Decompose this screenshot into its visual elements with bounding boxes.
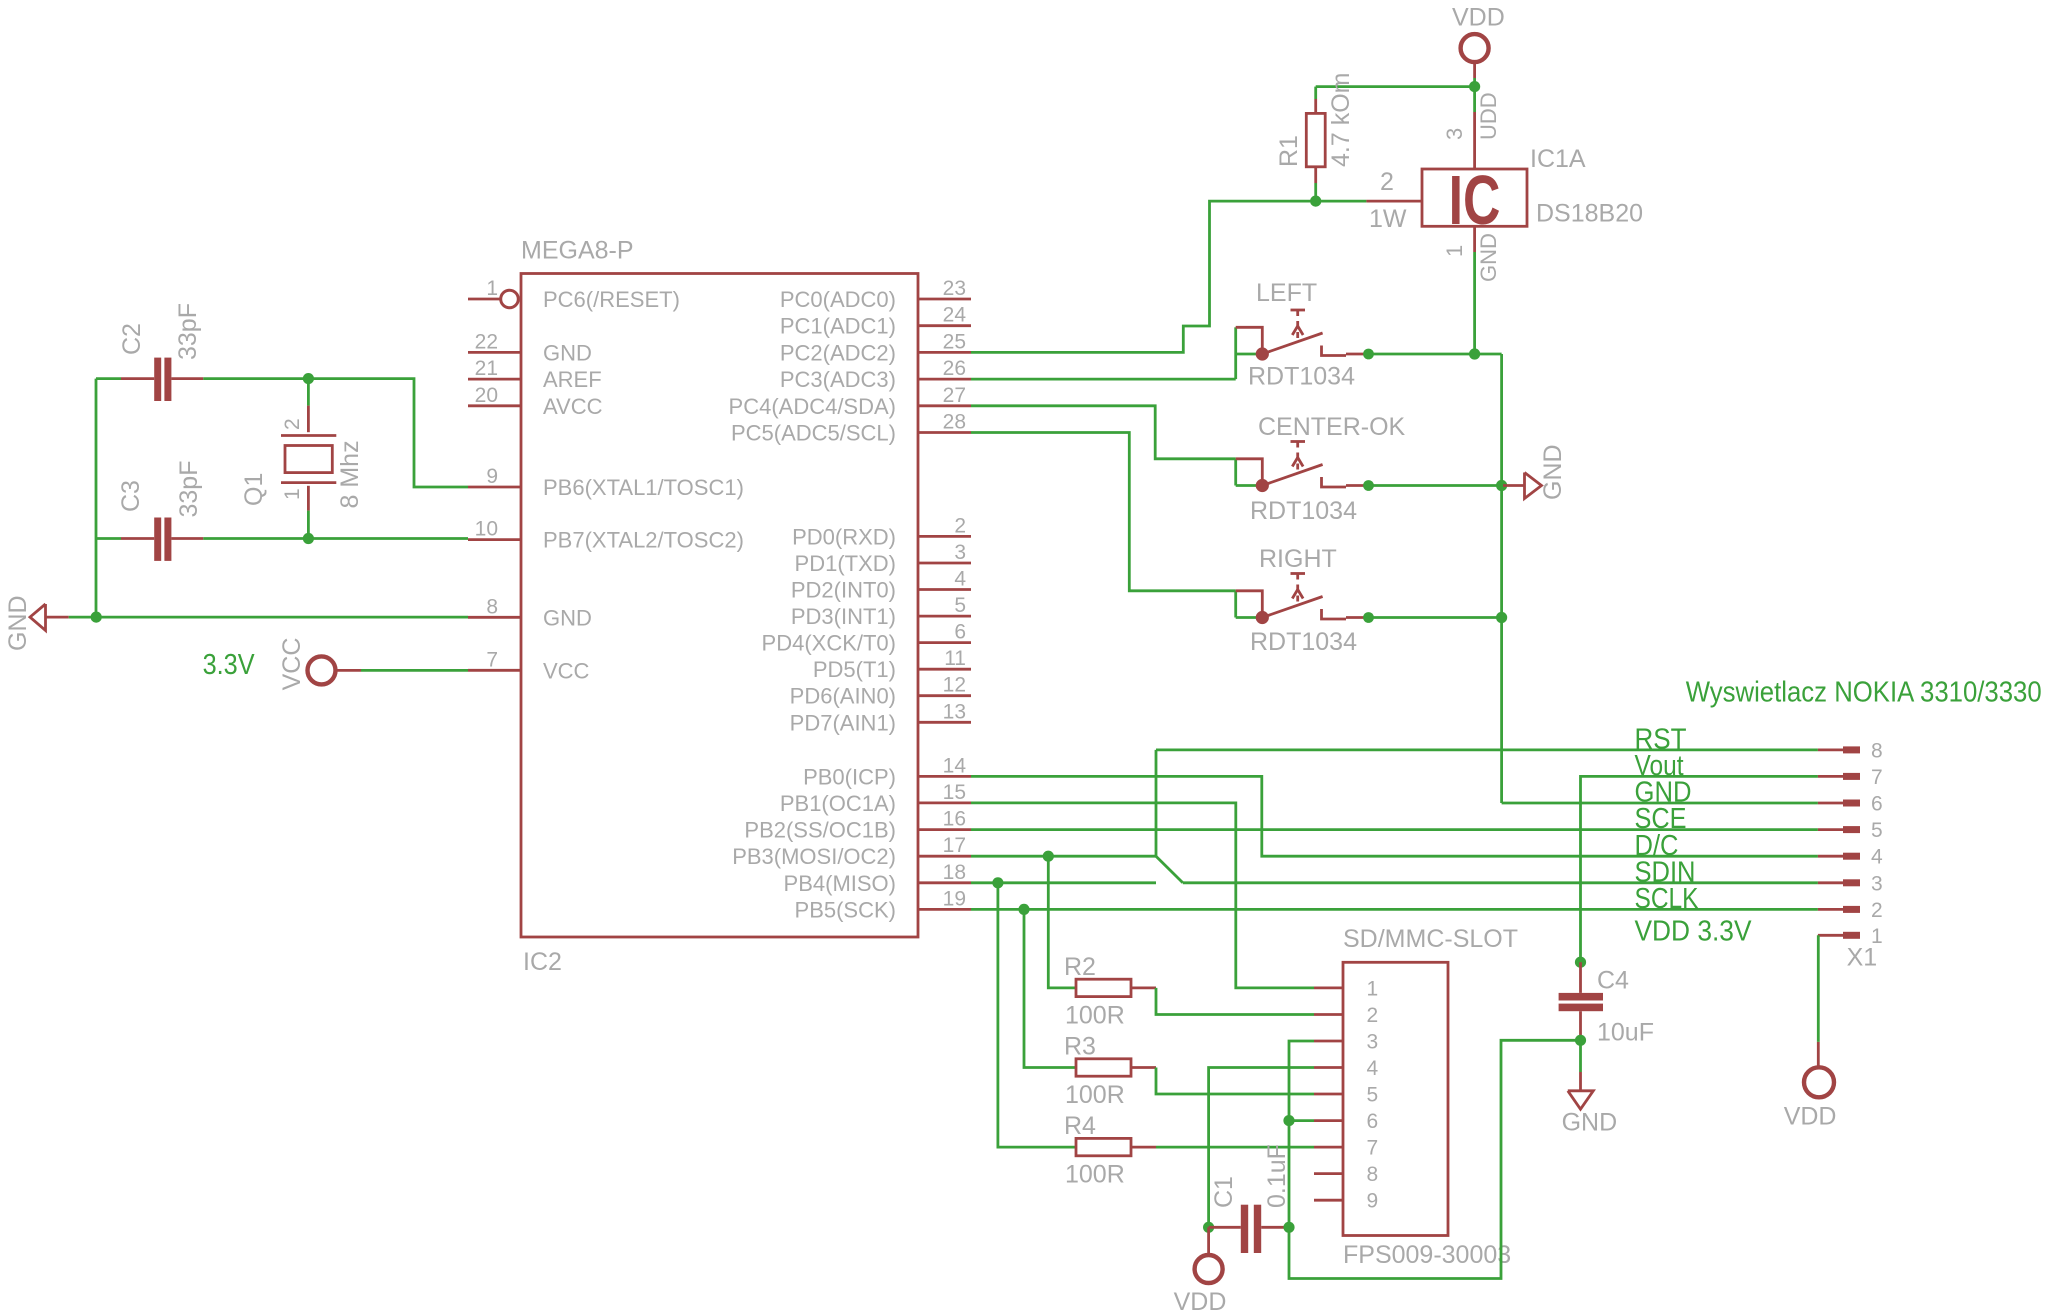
switch S2 CENTER-OK RDT1034 (1236, 442, 1374, 493)
svg-text:PB6(XTAL1/TOSC1): PB6(XTAL1/TOSC1) (543, 475, 744, 500)
wire SD GND loop (1289, 1040, 1581, 1278)
node junction PB4/R4 (992, 877, 1003, 888)
label R1 4.7 kOm (1327, 73, 1355, 167)
label RDT1034 RIGHT (1250, 628, 1357, 656)
node junction PB3/R2 (1043, 851, 1054, 862)
label Q1 (240, 473, 268, 506)
wire PB5 to R3 (1024, 909, 1076, 1067)
label IC1A pin3 number (1442, 128, 1467, 140)
node junction SD pin6 (1283, 1115, 1294, 1126)
label 3.3V (203, 649, 256, 681)
IC2 pin 17 PB3(MOSI/OC2) (732, 834, 971, 869)
svg-text:9: 9 (486, 465, 498, 488)
svg-text:13: 13 (943, 700, 966, 723)
svg-text:UDD: UDD (1476, 92, 1501, 140)
label C1 0.1uF (1263, 1144, 1291, 1208)
connector X1 pin 1 pad (1818, 925, 1883, 948)
label DS18B20 (1536, 200, 1643, 228)
svg-text:VCC: VCC (543, 658, 590, 683)
svg-text:RDT1034: RDT1034 (1248, 363, 1355, 391)
IC2 pin 1 PC6(/RESET) (468, 277, 680, 312)
svg-text:5: 5 (1871, 819, 1883, 842)
ground GND right symbol (1502, 473, 1542, 499)
svg-text:1W: 1W (1369, 205, 1407, 233)
svg-text:2: 2 (1380, 168, 1394, 196)
capacitor C1 0.1uF (1209, 1205, 1289, 1253)
IC2 pin 25 PC2(ADC2) (780, 330, 971, 365)
svg-text:26: 26 (943, 357, 966, 380)
svg-text:PD6(AIN0): PD6(AIN0) (790, 684, 896, 709)
svg-text:3: 3 (1871, 872, 1883, 895)
label net Vout (1635, 750, 1684, 782)
wire C3 to junction (203, 537, 308, 540)
svg-text:3: 3 (1367, 1030, 1379, 1053)
svg-text:GND: GND (543, 340, 592, 365)
supply VDD X1 circle (1804, 1042, 1834, 1097)
wire RST vertical (1155, 750, 1158, 856)
wire R2 to SD pin2 (1156, 988, 1314, 1015)
IC2 pin 8 GND (468, 595, 592, 630)
wire PB3 to R2 (1048, 856, 1076, 988)
svg-text:10: 10 (475, 518, 498, 541)
svg-text:4: 4 (1871, 846, 1883, 869)
node junction C1 left (1203, 1222, 1214, 1233)
IC U2 MEGA8-P body (521, 274, 918, 938)
svg-text:PB4(MISO): PB4(MISO) (784, 871, 896, 896)
svg-text:SD/MMC-SLOT: SD/MMC-SLOT (1343, 925, 1518, 953)
svg-text:1: 1 (486, 277, 498, 300)
svg-text:RIGHT: RIGHT (1259, 545, 1337, 573)
IC2 pin 12 PD6(AIN0) (790, 674, 971, 709)
connector X1 pin 4 pad (1818, 846, 1883, 869)
label RDT1034 LEFT (1248, 363, 1355, 391)
node junction C3/Q1 (303, 533, 314, 544)
IC2 pin 27 PC4(ADC4/SDA) (729, 384, 971, 419)
wire LEFT to GND rail (1369, 353, 1502, 356)
wire junction to pin9 (308, 379, 468, 487)
svg-text:PC4(ADC4/SDA): PC4(ADC4/SDA) (729, 394, 896, 419)
svg-text:14: 14 (943, 754, 967, 777)
resistor R4 100R (1076, 1138, 1156, 1155)
svg-text:PB2(SS/OC1B): PB2(SS/OC1B) (744, 818, 896, 843)
switch S3 RIGHT RDT1034 (1236, 574, 1374, 625)
svg-text:Q1: Q1 (240, 473, 268, 506)
svg-text:PB5(SCK): PB5(SCK) (795, 897, 896, 922)
svg-text:100R: 100R (1065, 1002, 1125, 1030)
svg-text:7: 7 (1871, 766, 1883, 789)
IC2 pin 21 AREF (468, 357, 602, 392)
svg-text:RDT1034: RDT1034 (1250, 628, 1357, 656)
svg-text:7: 7 (486, 648, 498, 671)
svg-text:33pF: 33pF (175, 461, 203, 518)
wire pin25 staircase to R1 (971, 201, 1316, 352)
svg-text:8 Mhz: 8 Mhz (336, 440, 364, 508)
label MEGA8-P (521, 237, 634, 265)
svg-text:2: 2 (281, 418, 304, 430)
label R4 (1064, 1112, 1096, 1140)
SD slot pin 4 stub (1314, 1057, 1379, 1080)
SD slot pin 1 stub (1314, 977, 1378, 1000)
label C3 (117, 480, 145, 512)
svg-text:2: 2 (1367, 1004, 1379, 1027)
label FPS009-30003 (1343, 1241, 1511, 1269)
resistor R1 4.7kOm (1306, 87, 1325, 202)
svg-text:PD4(XCK/T0): PD4(XCK/T0) (762, 631, 896, 656)
svg-text:PC1(ADC1): PC1(ADC1) (780, 314, 896, 339)
svg-text:24: 24 (943, 304, 967, 327)
label C2 (118, 323, 146, 355)
IC2 pin 10 PB7(XTAL2/TOSC2) (468, 518, 744, 553)
svg-text:VDD 3.3V: VDD 3.3V (1635, 915, 1753, 947)
svg-text:3.3V: 3.3V (203, 649, 256, 681)
wire R3 to SD pin5 (1156, 1068, 1314, 1095)
svg-text:4.7 kOm: 4.7 kOm (1327, 73, 1355, 167)
wire PB3 row (971, 855, 1156, 858)
wire PB5 to SCLK net (971, 908, 1818, 911)
wire pin27 to CENTER button (971, 406, 1236, 459)
svg-text:R1: R1 (1275, 135, 1303, 167)
svg-text:2: 2 (954, 514, 966, 537)
wire SDIN net (1183, 881, 1818, 884)
label net SCE (1635, 803, 1687, 835)
label IC1A pin3 UDD (1476, 92, 1501, 140)
node junction C4 bottom (1575, 1035, 1586, 1046)
wire RIGHT to GND rail (1369, 616, 1502, 619)
IC2 pin 24 PC1(ADC1) (780, 304, 971, 339)
svg-text:PB1(OC1A): PB1(OC1A) (780, 791, 896, 816)
wire GND to pin8 (96, 616, 468, 619)
node junction PB5/R3 (1018, 904, 1029, 915)
svg-text:R2: R2 (1064, 953, 1096, 981)
svg-text:PC5(ADC5/SCL): PC5(ADC5/SCL) (731, 421, 896, 446)
IC2 pin 11 PD5(T1) (813, 647, 971, 682)
wire PB2 to SCE net (971, 828, 1818, 831)
svg-text:MEGA8-P: MEGA8-P (521, 237, 634, 265)
SD slot pin 9 stub (1314, 1190, 1378, 1213)
label CENTER-OK (1258, 413, 1406, 441)
svg-text:C1: C1 (1210, 1176, 1238, 1208)
label IC1A pin1 GND (1476, 233, 1501, 282)
svg-text:PC0(ADC0): PC0(ADC0) (780, 287, 896, 312)
label SD/MMC-SLOT (1343, 925, 1518, 953)
label VDD bottom (1174, 1288, 1227, 1314)
label X1 (1847, 944, 1878, 972)
svg-text:Wyswietlacz NOKIA 3310/3330: Wyswietlacz NOKIA 3310/3330 (1686, 676, 2042, 708)
wire diagonal to SDIN (1156, 856, 1183, 883)
wire IC1A pin1 to GND rail (1473, 252, 1476, 354)
svg-text:22: 22 (475, 330, 498, 353)
svg-text:IC1A: IC1A (1530, 145, 1586, 173)
svg-text:12: 12 (943, 674, 966, 697)
label IC1A pin2 1W (1369, 205, 1407, 233)
svg-text:RDT1034: RDT1034 (1250, 497, 1357, 525)
svg-text:28: 28 (943, 411, 966, 434)
wire R4 to SD pin7 (1156, 1146, 1314, 1149)
wire junction to pin10 (308, 537, 468, 540)
svg-text:AVCC: AVCC (543, 394, 603, 419)
capacitor C2 (121, 358, 203, 401)
resistor R3 100R (1076, 1059, 1156, 1076)
wire GND stub to junction (69, 616, 97, 619)
wire C2 to XTAL1 junction (203, 377, 308, 380)
svg-text:PD5(T1): PD5(T1) (813, 657, 896, 682)
svg-text:GND: GND (1476, 233, 1501, 282)
svg-text:IC2: IC2 (523, 948, 562, 976)
label R3 (1064, 1033, 1096, 1061)
svg-text:VDD: VDD (1452, 4, 1505, 32)
supply VCC terminal circle (308, 656, 362, 684)
svg-text:6: 6 (954, 621, 966, 644)
svg-text:VDD: VDD (1174, 1288, 1227, 1314)
svg-text:CENTER-OK: CENTER-OK (1258, 413, 1406, 441)
label C2 33pF (174, 303, 202, 360)
SD slot pin 6 stub (1314, 1110, 1378, 1133)
label R4 100R (1065, 1161, 1125, 1189)
node junction GND rail CENTER (1496, 480, 1507, 491)
connector X1 pin 7 pad (1818, 766, 1883, 789)
connector SD/MMC-SLOT body (1343, 962, 1448, 1235)
connector X1 pin 5 pad (1818, 819, 1883, 842)
wire Vout net (1581, 776, 1818, 962)
svg-text:20: 20 (475, 384, 498, 407)
supply VDD bottom circle (1195, 1227, 1223, 1283)
svg-text:11: 11 (944, 647, 966, 670)
svg-text:DS18B20: DS18B20 (1536, 200, 1643, 228)
IC2 pin 23 PC0(ADC0) (780, 277, 971, 312)
IC2 pin 22 GND (468, 330, 592, 365)
IC2 pin 4 PD2(INT0) (791, 568, 971, 603)
svg-text:C2: C2 (118, 323, 146, 355)
IC2 pin 3 PD1(TXD) (795, 541, 971, 576)
svg-text:8: 8 (486, 595, 498, 618)
svg-text:10uF: 10uF (1597, 1018, 1654, 1046)
svg-text:X1: X1 (1847, 944, 1878, 972)
svg-text:GND: GND (1562, 1109, 1618, 1137)
svg-text:19: 19 (943, 887, 966, 910)
IC2 pin 18 PB4(MISO) (784, 861, 971, 896)
label net GND (1635, 777, 1692, 809)
label RDT1034 CENTER (1250, 497, 1357, 525)
svg-text:PC2(ADC2): PC2(ADC2) (780, 340, 896, 365)
wire LEFT button left vertical (1234, 354, 1237, 379)
wire RST net (1156, 749, 1818, 752)
label R2 100R (1065, 1002, 1125, 1030)
wire C2 row left green (96, 377, 121, 380)
svg-text:PD2(INT0): PD2(INT0) (791, 578, 896, 603)
IC1A pin 3 stub (1473, 112, 1476, 169)
svg-text:C4: C4 (1597, 966, 1629, 994)
label R1 (1275, 135, 1303, 167)
wire VCC to pin7 (361, 669, 468, 672)
svg-text:23: 23 (943, 277, 966, 300)
svg-text:R4: R4 (1064, 1112, 1096, 1140)
label C3 33pF (175, 461, 203, 518)
svg-text:VDD: VDD (1784, 1103, 1837, 1131)
capacitor C4 10uF (1559, 962, 1603, 1040)
wire C3 row left green (96, 537, 121, 540)
svg-text:PC6(/RESET): PC6(/RESET) (543, 287, 680, 312)
svg-text:PD0(RXD): PD0(RXD) (792, 524, 896, 549)
wire SD pin3 branch (1289, 1041, 1314, 1227)
svg-text:FPS009-30003: FPS009-30003 (1343, 1241, 1511, 1269)
wire pin28 to RIGHT button (971, 433, 1236, 591)
SD slot pin 7 stub (1314, 1137, 1378, 1160)
label R2 (1064, 953, 1096, 981)
label LEFT (1256, 279, 1317, 307)
ground GND left symbol (30, 604, 69, 630)
node junction GND rail (91, 612, 102, 623)
label IC2 (523, 948, 562, 976)
node junction C4 top (1575, 957, 1586, 968)
label GND bottom (1562, 1109, 1618, 1137)
wire GND rail vertical (1500, 354, 1503, 803)
label Q1 pin2 (281, 418, 304, 430)
wire PB4 to R4 (998, 883, 1076, 1147)
svg-text:6: 6 (1367, 1110, 1379, 1133)
IC1A pin 2 stub (1366, 200, 1422, 203)
svg-text:SCLK: SCLK (1635, 883, 1700, 915)
IC U1A DS18B20 body (1422, 161, 1527, 239)
IC2 pin 16 PB2(SS/OC1B) (744, 808, 971, 843)
wire junction to IC1A pin2 (1316, 200, 1367, 203)
IC2 pin 26 PC3(ADC3) (780, 357, 971, 392)
svg-text:2: 2 (1871, 899, 1883, 922)
wire VDD rail to R1 (1316, 85, 1475, 88)
label GND right (1539, 444, 1567, 500)
wire CENTER to GND rail (1369, 484, 1502, 487)
svg-text:C3: C3 (117, 480, 145, 512)
IC2 pin 15 PB1(OC1A) (780, 781, 971, 816)
svg-text:PB0(ICP): PB0(ICP) (803, 764, 896, 789)
svg-text:GND: GND (1539, 444, 1567, 500)
svg-text:5: 5 (1367, 1083, 1379, 1106)
svg-text:16: 16 (943, 808, 966, 831)
SD slot pin 8 stub (1314, 1163, 1378, 1186)
IC2 pin 5 PD3(INT1) (791, 594, 971, 629)
node junction GND rail RIGHT (1496, 612, 1507, 623)
svg-text:4: 4 (1367, 1057, 1379, 1080)
svg-text:15: 15 (943, 781, 966, 804)
label VCC (278, 638, 306, 691)
IC1A pin 1 stub (1473, 226, 1476, 252)
svg-text:PD1(TXD): PD1(TXD) (795, 551, 896, 576)
connector X1 pin 6 pad (1818, 793, 1883, 816)
svg-text:9: 9 (1367, 1190, 1379, 1213)
svg-text:5: 5 (954, 594, 966, 617)
svg-text:GND: GND (543, 605, 592, 630)
wire GND rail to X1 pin6 (1502, 802, 1818, 805)
label C4 (1597, 966, 1629, 994)
label C4 10uF (1597, 1018, 1654, 1046)
svg-text:8: 8 (1871, 739, 1883, 762)
ground GND bottom symbol (1568, 1040, 1594, 1109)
svg-text:17: 17 (943, 834, 966, 857)
wire PB1 to SD pin1 (971, 803, 1314, 988)
svg-text:1: 1 (1442, 245, 1467, 257)
wire pin26 to LEFT button (971, 378, 1236, 381)
svg-text:GND: GND (4, 595, 32, 651)
svg-text:4: 4 (954, 568, 966, 591)
wire X1 pin1 to VDD (1817, 935, 1820, 1042)
wire SD pin6 stub link (1289, 1119, 1314, 1122)
svg-text:3: 3 (954, 541, 966, 564)
label IC1A (1530, 145, 1586, 173)
label VDD top (1452, 4, 1505, 32)
node junction C1 right (1283, 1222, 1294, 1233)
IC2 pin 19 PB5(SCK) (795, 887, 971, 922)
connector X1 pin 3 pad (1818, 872, 1883, 895)
svg-text:PB3(MOSI/OC2): PB3(MOSI/OC2) (732, 844, 896, 869)
label Wyswietlacz NOKIA 3310/3330 (1686, 676, 2042, 708)
svg-text:21: 21 (475, 357, 498, 380)
SD slot pin 5 stub (1314, 1083, 1378, 1106)
svg-text:7: 7 (1367, 1137, 1379, 1160)
label net RST (1635, 724, 1687, 756)
wire Q1 bottom lead (307, 511, 310, 539)
label R3 100R (1065, 1081, 1125, 1109)
svg-text:8: 8 (1367, 1163, 1379, 1186)
svg-text:33pF: 33pF (174, 303, 202, 360)
svg-text:AREF: AREF (543, 367, 602, 392)
node junction R1/IC1A pin2 (1310, 196, 1321, 207)
node junction IC1A-GND / LEFT row (1469, 348, 1480, 359)
crystal Q1 (281, 406, 336, 511)
svg-text:25: 25 (943, 330, 966, 353)
label IC1A pin2 number (1380, 168, 1394, 196)
svg-text:100R: 100R (1065, 1081, 1125, 1109)
svg-text:27: 27 (943, 384, 966, 407)
capacitor C3 (121, 518, 203, 561)
wire PB0 to D/C net (971, 776, 1818, 856)
svg-text:R3: R3 (1064, 1033, 1096, 1061)
label GND left (4, 595, 32, 651)
supply VDD top circle (1461, 34, 1489, 78)
SD slot pin 3 stub (1314, 1030, 1378, 1053)
label RIGHT (1259, 545, 1337, 573)
node junction VDD/R1/IC1A (1469, 81, 1480, 92)
svg-text:1: 1 (1367, 977, 1379, 1000)
label IC1A pin1 number (1442, 245, 1467, 257)
wire VDD junction to pin3 (1473, 87, 1476, 112)
IC2 pin 13 PD7(AIN1) (790, 700, 971, 735)
label net D/C (1635, 830, 1679, 862)
svg-text:LEFT: LEFT (1256, 279, 1317, 307)
node junction C2/Q1 (303, 373, 314, 384)
switch S1 LEFT RDT1034 (1236, 310, 1374, 361)
wire SD pin4 to C1 (1209, 1068, 1314, 1228)
wire VDD to junction (1473, 78, 1476, 87)
label net SDIN (1635, 856, 1696, 888)
label C1 (1210, 1176, 1238, 1208)
wire left vertical C2-C3-GND (95, 379, 98, 617)
IC2 pin 6 PD4(XCK/T0) (762, 621, 971, 656)
IC2 pin 9 PB6(XTAL1/TOSC1) (468, 465, 744, 500)
wire PB4 row (971, 881, 1156, 884)
svg-text:PB7(XTAL2/TOSC2): PB7(XTAL2/TOSC2) (543, 528, 744, 553)
svg-text:3: 3 (1442, 128, 1467, 140)
label net VDD 3.3V (1635, 915, 1753, 947)
IC2 pin 28 PC5(ADC5/SCL) (731, 411, 971, 446)
connector X1 pin 2 pad (1818, 899, 1883, 922)
label Q1 8 Mhz (336, 440, 364, 508)
IC2 pin 20 AVCC (468, 384, 603, 419)
svg-text:VCC: VCC (278, 638, 306, 691)
IC2 pin 2 PD0(RXD) (792, 514, 971, 549)
svg-text:6: 6 (1871, 793, 1883, 816)
svg-text:PD7(AIN1): PD7(AIN1) (790, 710, 896, 735)
svg-text:1: 1 (281, 488, 304, 500)
svg-text:18: 18 (943, 861, 966, 884)
